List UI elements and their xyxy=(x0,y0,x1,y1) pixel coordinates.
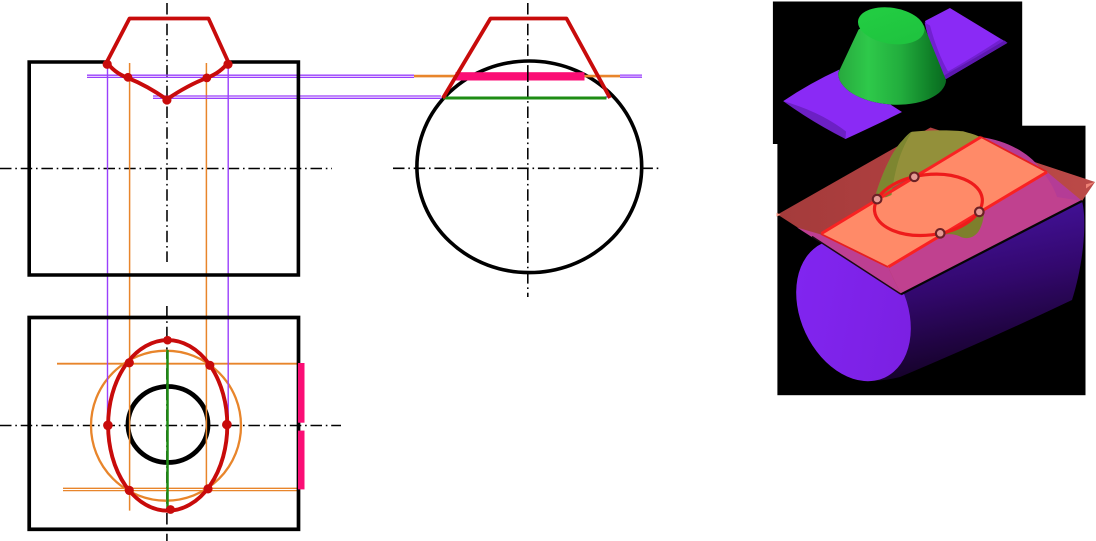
purple band right patch dark shade xyxy=(925,23,1005,78)
purple band right patch bottom edge shade xyxy=(944,41,1007,80)
front view horizontal centerline xyxy=(0,168,332,170)
top view pink bar lower xyxy=(298,431,305,490)
purple cylinder band right patch xyxy=(925,8,1007,79)
black background bottom render xyxy=(777,126,1085,396)
top view orange horizontal upper xyxy=(57,363,298,365)
top view orange horizontal lower B xyxy=(63,490,298,492)
projection purple vertical left xyxy=(107,64,109,422)
projection purple horizontal upper right line2 xyxy=(620,76,642,78)
top view horizontal centerline xyxy=(0,425,341,427)
side view vertical centerline xyxy=(527,3,529,297)
purple band left patch dark underside xyxy=(783,101,846,139)
top view frustum top circle xyxy=(128,387,208,463)
olive cone lower lobe xyxy=(941,208,984,238)
front view red point dots xyxy=(103,60,233,105)
magenta plane-over-cylinder left strip xyxy=(797,228,901,295)
bright sliver of plane left corner xyxy=(777,213,781,217)
salmon cut face rectangle xyxy=(821,137,1047,267)
top view red intersection ellipse xyxy=(108,340,227,511)
tiny purple tick at green line right end xyxy=(606,96,610,98)
black background top render xyxy=(773,2,1022,145)
top view green vertical line xyxy=(166,350,169,508)
olive cone upper blob xyxy=(875,130,981,197)
side view green chord line xyxy=(443,97,607,100)
purple cylinder body xyxy=(853,201,1084,381)
front view red intersection curve xyxy=(107,62,229,99)
bright sliver of plane corner over white xyxy=(1086,182,1095,189)
black plane entry edge line left xyxy=(812,237,901,295)
side view orange horizontal left xyxy=(414,75,457,78)
top view pink bar upper xyxy=(298,363,305,423)
projection purple vertical right xyxy=(227,64,229,420)
black cylinder cut edge line xyxy=(901,201,1082,294)
red cut face short edge right xyxy=(981,137,1047,172)
projection purple horizontal lower pair line2 xyxy=(153,97,442,99)
projection purple horizontal upper pair line1 xyxy=(87,74,414,76)
top view red point dots xyxy=(103,336,232,514)
magenta plane-over-cylinder right region xyxy=(981,137,1082,201)
centerline dash crossing side view pink band xyxy=(527,72,529,82)
side view pink highlight band xyxy=(456,72,585,80)
intersection point marker left xyxy=(873,195,882,204)
side view cylinder circle xyxy=(417,61,642,273)
projection purple horizontal upper pair line2 xyxy=(87,76,414,78)
side view red frustum outline xyxy=(443,19,610,99)
green cone lateral surface xyxy=(838,12,946,105)
translucent red cutting plane xyxy=(778,128,1096,295)
green cone top disc xyxy=(855,3,927,49)
front view vertical centerline xyxy=(166,3,168,262)
red cut face edge line 1 xyxy=(822,137,982,234)
intersection point marker right xyxy=(975,208,984,217)
intersection point marker bottom xyxy=(936,229,945,238)
red intersection ellipse on plane xyxy=(871,168,986,241)
projection line orange vertical left xyxy=(129,63,131,511)
side view orange horizontal right xyxy=(585,75,621,78)
olive cone upper blob darker left edge xyxy=(875,132,912,198)
top view cone base circle xyxy=(91,351,241,501)
side view horizontal centerline xyxy=(393,167,659,169)
top view orange horizontal lower A xyxy=(63,487,298,489)
top view vertical centerline xyxy=(166,306,168,541)
intersection point marker top xyxy=(910,173,919,182)
projection line orange vertical right xyxy=(205,63,207,485)
front view cylinder rectangle (top edge interrupted by frustum) xyxy=(29,62,298,275)
top view cylinder rectangle xyxy=(29,318,298,530)
magenta plane-over-cylinder bottom band xyxy=(888,172,1082,294)
red cut face short edge left xyxy=(821,234,888,267)
purple cylinder band left patch xyxy=(783,70,902,140)
projection purple horizontal upper right line1 xyxy=(620,74,642,76)
purple cylinder left end cap xyxy=(774,221,933,400)
front view red frustum outline xyxy=(107,19,229,63)
projection purple horizontal lower pair line1 xyxy=(153,95,441,97)
red cut face edge line 2 xyxy=(888,172,1047,267)
